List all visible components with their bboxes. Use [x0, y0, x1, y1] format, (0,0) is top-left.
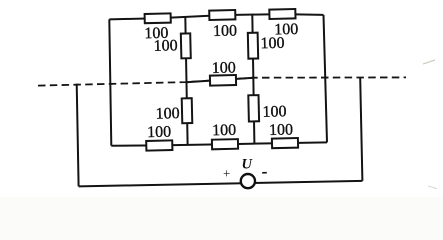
- resistor R4 branch1 upper 100: [181, 33, 191, 58]
- wire outer loop bottom: [79, 181, 363, 187]
- label minus sign: [262, 172, 267, 174]
- svg-text:100: 100: [212, 59, 236, 77]
- wire outer loop right vertical: [360, 78, 362, 181]
- wire branch 2 vertical: [252, 15, 254, 144]
- wire middle row: [186, 78, 254, 83]
- scan noise mark right edge: [423, 60, 435, 64]
- wire bottom rail: [111, 142, 327, 145]
- wire top rail: [109, 14, 323, 19]
- resistor R9 bottom-left 100: [146, 140, 172, 150]
- resistor R8 branch2 lower 100: [248, 95, 259, 121]
- wire outer loop left vertical: [77, 84, 79, 187]
- wire right edge: [324, 15, 328, 142]
- dashed line (section axis): [38, 77, 406, 85]
- resistor R11 bottom-right 100: [272, 138, 298, 148]
- resistor R1 top-left 100: [145, 13, 171, 23]
- scan noise mark right lower: [428, 186, 437, 189]
- wire branch 1 vertical: [185, 17, 187, 145]
- svg-text:100: 100: [213, 22, 237, 40]
- svg-text:100: 100: [147, 124, 171, 142]
- svg-text:100: 100: [269, 121, 293, 139]
- wire left edge: [109, 19, 111, 145]
- svg-text:100: 100: [260, 35, 284, 53]
- resistor R6 middle 100: [210, 75, 236, 86]
- resistor R7 branch1 lower 100: [182, 98, 193, 123]
- resistor R3 top-right 100: [269, 9, 295, 19]
- svg-text:100: 100: [156, 105, 180, 123]
- resistor R5 branch2 upper 100: [248, 33, 258, 59]
- svg-text:U: U: [241, 156, 253, 172]
- resistor R2 top-middle 100: [209, 10, 235, 20]
- svg-text:100: 100: [212, 122, 236, 140]
- svg-text:+: +: [223, 165, 230, 180]
- voltage source U circle: [241, 174, 255, 188]
- svg-text:100: 100: [153, 37, 177, 55]
- resistor R10 bottom-middle 100: [212, 139, 238, 149]
- svg-text:100: 100: [262, 103, 286, 121]
